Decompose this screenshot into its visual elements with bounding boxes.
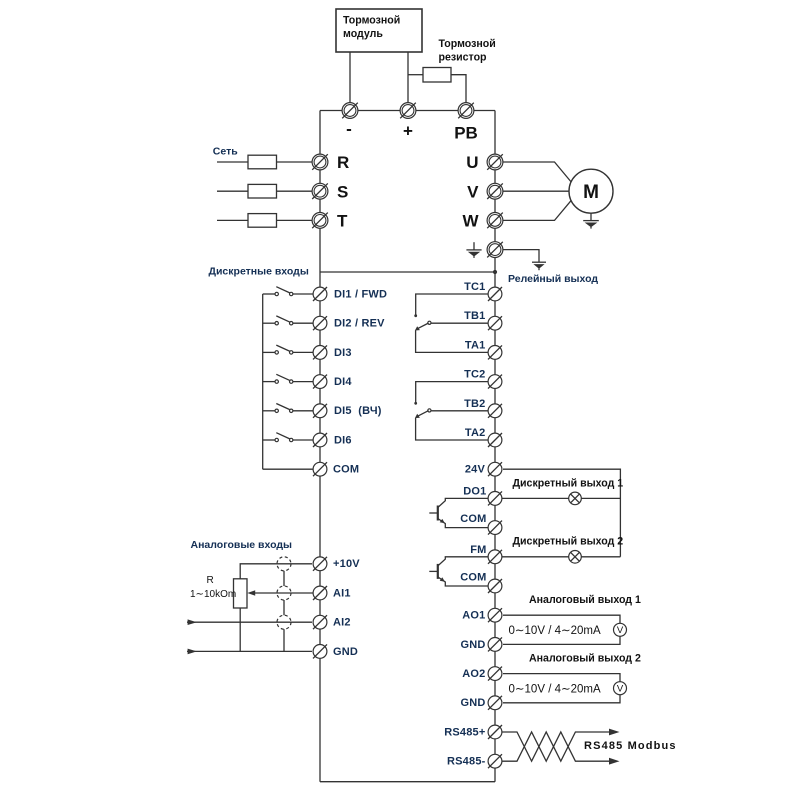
terminal 24V [488,462,502,476]
terminal W [487,213,503,229]
svg-text:1∼10kOm: 1∼10kOm [190,589,236,600]
svg-text:R: R [337,153,349,172]
wire FM-to-lamp [502,556,620,558]
svg-text:GND: GND [460,639,485,651]
svg-text:+: + [403,122,413,141]
terminal AO2 [488,667,502,681]
svg-text:модуль: модуль [343,28,383,40]
terminal DI5&#160; (ВЧ) [313,404,327,418]
shield ring 1 [277,557,291,571]
svg-text:Тормозной: Тормозной [439,38,496,50]
ground PE mark [466,250,481,258]
ground motor [583,221,599,229]
terminal GND [488,637,502,651]
wire GND input [187,649,312,655]
svg-text:TB1: TB1 [464,310,485,322]
svg-text:FM: FM [470,544,486,556]
wire inverter top edge [320,110,495,112]
wire fuse-to-terminal S [277,190,313,192]
voltmeter V2 [614,682,627,695]
svg-text:AO2: AO2 [462,668,485,680]
terminal COM [488,579,502,593]
svg-text:AI1: AI1 [333,587,351,599]
terminal DI2 / REV [313,316,327,330]
svg-text:DO1: DO1 [463,486,486,498]
svg-text:Аналоговые входы: Аналоговые входы [191,539,293,551]
shield ring 2 [277,586,291,600]
potentiometer R [234,579,248,608]
svg-text:0∼10V / 4∼20mA: 0∼10V / 4∼20mA [509,625,601,637]
svg-text:DI1 / FWD: DI1 / FWD [334,288,387,300]
terminal TC2 [488,375,502,389]
terminal R [312,154,328,170]
wire power/control divider [320,271,495,273]
twisted pair RS485 [502,729,620,765]
wire motor ground lead [590,213,592,220]
svg-text:DI5 (ВЧ): DI5 (ВЧ) [334,405,382,417]
wire DO1-to-lamp [502,497,620,499]
svg-text:Дискретный выход 2: Дискретный выход 2 [513,536,624,548]
terminal TB2 [488,404,502,418]
svg-text:Сеть: Сеть [213,146,238,158]
svg-text:COM: COM [333,464,359,476]
terminal V [487,183,503,199]
wire U-to-motor [503,162,571,182]
terminal COM [313,462,327,476]
fuse R phase [248,155,277,169]
svg-text:V: V [617,625,624,636]
svg-text:Дискретный выход 1: Дискретный выход 1 [513,478,624,490]
svg-text:AI2: AI2 [333,617,351,629]
wire mains lead T [217,219,248,221]
terminal GND [313,644,327,658]
voltmeter V1 [614,623,627,636]
wire PE stem mark [473,242,475,250]
terminal T [312,213,328,229]
svg-text:RS485-: RS485- [447,756,486,768]
wire COM bus lead [263,468,313,470]
terminal DI1 / FWD [313,287,327,301]
terminal PB [458,103,474,119]
switch DI1 / FWD contact [263,287,313,296]
terminal FM [488,550,502,564]
svg-text:M: M [583,182,599,203]
motor M [569,169,613,213]
wire V-to-motor [503,190,569,192]
svg-text:S: S [337,182,348,201]
svg-text:DI2 / REV: DI2 / REV [334,318,385,330]
terminal PE [487,242,503,258]
svg-text:резистор: резистор [439,52,488,64]
lamp discrete output 2 [569,551,582,564]
terminal plus [400,103,416,119]
terminal TB1 [488,316,502,330]
wire W-to-motor [503,200,571,220]
svg-text:DI3: DI3 [334,347,352,359]
terminal AO1 [488,608,502,622]
lamp discrete output 1 [569,492,582,505]
terminal COM [488,521,502,535]
wire analog output 2 loop [503,674,620,682]
wire DI common bus [262,294,264,469]
wire brake module minus lead [349,52,351,103]
svg-text:V: V [467,182,479,201]
svg-text:TB2: TB2 [464,398,485,410]
transistor Q2 [429,557,488,586]
svg-text:TC2: TC2 [464,369,485,381]
svg-text:Дискретные входы: Дискретные входы [209,266,309,278]
svg-text:Аналоговый выход 1: Аналоговый выход 1 [529,594,641,606]
shield ring 3 [277,615,291,629]
svg-text:DI6: DI6 [334,434,352,446]
svg-text:V: V [617,684,624,695]
wire AI1 wiper [247,590,313,595]
svg-text:TC1: TC1 [464,281,485,293]
wire fuse-to-terminal R [277,161,313,163]
switch DI6 contact [263,433,313,442]
svg-text:PB: PB [454,124,478,143]
svg-text:Тормозной: Тормозной [343,15,400,27]
wire mains lead R [217,161,248,163]
switch DI3 contact [263,345,313,354]
terminal minus [342,103,358,119]
wire AI2 input [187,619,312,625]
wire PE-to-earth [503,250,539,263]
svg-text:RS485+: RS485+ [444,726,485,738]
junction divider-right [493,270,497,274]
wire mains lead S [217,190,248,192]
svg-text:Аналоговый выход 2: Аналоговый выход 2 [529,653,641,665]
svg-text:R: R [207,575,214,586]
wire shield link 2 [283,600,285,615]
svg-text:DI4: DI4 [334,376,352,388]
wire brake module plus lead [407,52,409,103]
svg-text:24V: 24V [465,464,486,476]
switch DI5&#160; (ВЧ) contact [263,404,313,413]
fuse T phase [248,214,277,228]
wire analog output 1 return [503,636,620,644]
fuse S phase [248,184,277,198]
wire shield link 1 [283,571,285,586]
svg-text:GND: GND [333,646,358,658]
wire inverter left edge [319,111,321,782]
relay contact K2 [414,382,488,440]
wire shield drain [283,629,285,651]
terminal AI1 [313,586,327,600]
terminal DI4 [313,375,327,389]
relay contact K1 [414,294,488,352]
switch DI4 contact [263,374,313,383]
wire pot top to +10V [240,564,312,579]
wire brake resistor left lead [408,74,423,76]
wire inverter bottom edge [320,781,495,783]
svg-text:U: U [466,153,478,172]
switch DI2 / REV contact [263,316,313,325]
svg-text:-: - [346,120,352,139]
svg-text:GND: GND [460,697,485,709]
terminal U [487,154,503,170]
svg-text:COM: COM [460,513,486,525]
terminal DI6 [313,433,327,447]
wire inverter right edge [494,111,496,782]
wire brake resistor right lead [451,75,466,103]
ground PE earth [532,262,546,270]
terminal TA1 [488,345,502,359]
brake resistor [423,68,451,83]
svg-text:TA2: TA2 [465,427,486,439]
svg-text:AO1: AO1 [462,610,485,622]
terminal TC1 [488,287,502,301]
svg-text:COM: COM [460,572,486,584]
terminal RS485- [488,754,502,768]
svg-text:T: T [337,212,348,231]
wire pot bottom to GND [239,608,241,651]
transistor Q1 [429,498,488,527]
terminal GND [488,696,502,710]
svg-text:RS485 Modbus: RS485 Modbus [584,740,677,752]
terminal DO1 [488,491,502,505]
terminal TA2 [488,433,502,447]
wire analog output 1 loop [503,615,620,623]
wire analog output 2 return [503,695,620,703]
terminal DI3 [313,345,327,359]
svg-text:0∼10V / 4∼20mA: 0∼10V / 4∼20mA [509,684,601,696]
svg-text:W: W [462,212,479,231]
terminal AI2 [313,615,327,629]
wire 24V feed [503,469,620,557]
svg-text:Релейный выход: Релейный выход [508,273,598,285]
terminal RS485+ [488,725,502,739]
terminal +10V [313,557,327,571]
brake module box [336,9,422,52]
svg-text:+10V: +10V [333,558,360,570]
wire fuse-to-terminal T [277,219,313,221]
terminal S [312,183,328,199]
svg-text:TA1: TA1 [465,339,486,351]
